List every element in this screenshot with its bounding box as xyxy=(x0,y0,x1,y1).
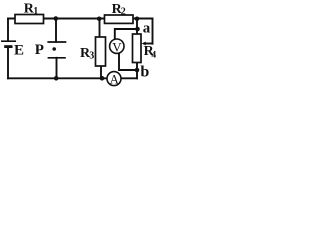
wire R3 top stub xyxy=(99,19,101,38)
svg-text:2: 2 xyxy=(121,7,126,18)
wire slider horizontal xyxy=(145,43,153,45)
label R3 xyxy=(80,46,94,62)
svg-text:V: V xyxy=(112,39,122,54)
wire capacitor top stub xyxy=(55,19,57,42)
junction dot capacitor bottom xyxy=(54,76,59,81)
wire b to voltmeter bottom xyxy=(119,54,137,70)
wire bottom rail xyxy=(8,77,137,79)
label R4 xyxy=(144,44,157,60)
label R2 xyxy=(112,2,126,18)
wire right rail xyxy=(152,19,154,44)
resistor R1 xyxy=(15,15,44,24)
resistor R2 xyxy=(105,15,134,23)
voltmeter V xyxy=(110,39,124,54)
wire R4 bottom stub xyxy=(136,63,138,79)
wire top rail xyxy=(8,18,153,20)
resistor R3 xyxy=(96,37,106,66)
junction dot R3 bottom xyxy=(100,76,105,81)
label R1 xyxy=(24,1,38,17)
particle P dot xyxy=(52,47,56,51)
svg-text:b: b xyxy=(140,64,149,81)
svg-text:E: E xyxy=(14,42,24,58)
ammeter A xyxy=(107,72,121,87)
svg-text:3: 3 xyxy=(89,51,94,62)
capacitor plates xyxy=(47,42,66,58)
battery E xyxy=(1,41,16,46)
wire left rail lower xyxy=(7,47,9,78)
wire capacitor bottom stub xyxy=(56,58,58,79)
node a xyxy=(135,27,140,32)
wire node a stub xyxy=(136,19,138,35)
junction dot before R2 xyxy=(97,17,102,22)
svg-text:P: P xyxy=(35,42,44,58)
node b xyxy=(135,68,140,73)
wire a to voltmeter xyxy=(115,29,137,39)
rheostat slider arrowhead xyxy=(142,42,146,46)
svg-text:a: a xyxy=(143,21,151,37)
wire R3 bottom stub xyxy=(100,66,102,78)
junction dot after R2 xyxy=(135,17,140,22)
svg-text:A: A xyxy=(110,73,119,87)
junction dot after R1 xyxy=(54,16,59,21)
svg-text:1: 1 xyxy=(33,6,38,17)
wire left rail upper xyxy=(7,19,9,41)
svg-text:4: 4 xyxy=(151,50,156,60)
rheostat R4 xyxy=(133,34,142,63)
